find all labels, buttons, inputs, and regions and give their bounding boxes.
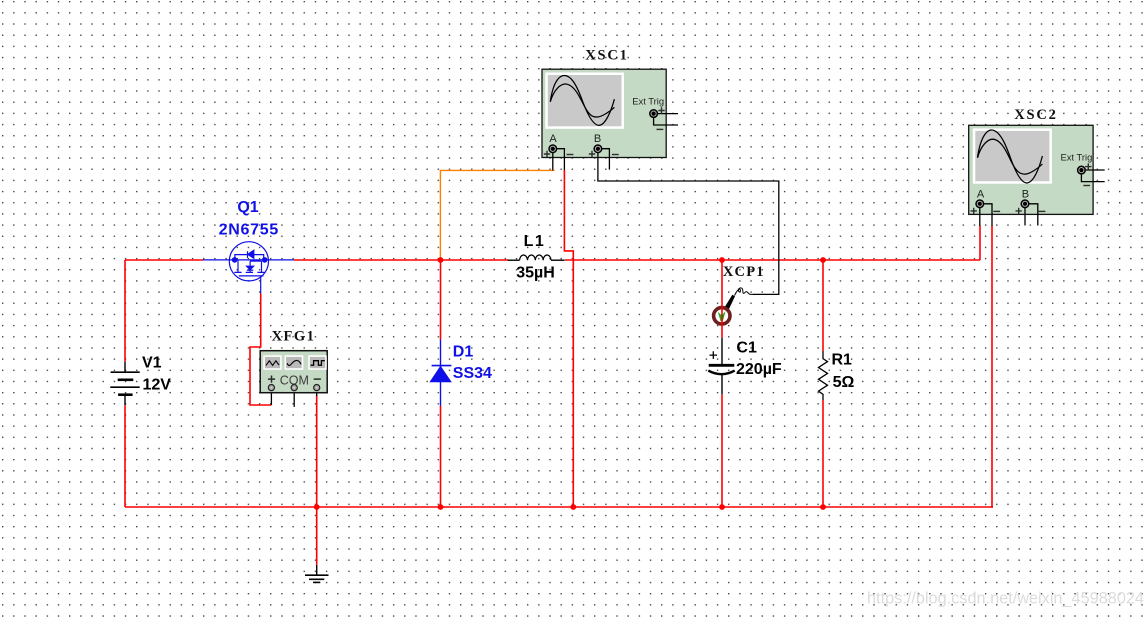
- wire: left branch V1 bottom red: [124, 405, 126, 507]
- svg-text:D1: D1: [453, 344, 474, 361]
- wire: top bus L1 to XSC2: [565, 259, 980, 261]
- wire: XSC2 A+ black lead: [979, 207, 981, 226]
- XSC2 screen: [973, 128, 1052, 183]
- icon triangle-wave: [263, 355, 281, 370]
- wire: orange XSC1 A+ to switch node: [440, 170, 554, 260]
- pin polarity marks XSC2: [971, 163, 1092, 214]
- junction: XCP1 on top bus: [719, 257, 725, 263]
- icon sine-wave: [285, 355, 304, 370]
- svg-text:R1: R1: [832, 352, 853, 369]
- probe clamp: [724, 295, 735, 310]
- svg-text:L1: L1: [524, 233, 546, 250]
- svg-text:V1: V1: [142, 355, 162, 372]
- capacitor C1: [708, 338, 734, 395]
- wire: XSC2 A- black lead: [983, 204, 992, 226]
- svg-text:Q1: Q1: [237, 199, 258, 216]
- icon square-wave: [308, 355, 327, 370]
- XSC2 waveform trace A: [978, 130, 1043, 183]
- XSC1 waveform trace A: [550, 75, 614, 125]
- wire: Q1 source to XFG1 plus: [250, 294, 271, 406]
- wire: XSC1 A+ black lead: [552, 152, 554, 170]
- wire: R1 top red: [822, 260, 824, 351]
- wire: top bus left of Q1: [125, 259, 203, 261]
- wire: C1 bottom red: [721, 394, 723, 507]
- wire: XSC2 A+ vertical: [979, 226, 981, 261]
- oscilloscope U-XSC1: [542, 69, 779, 294]
- wire: XSC1 A- black lead: [556, 149, 564, 170]
- svg-text:XSC2: XSC2: [1014, 107, 1057, 123]
- wire: XSC2 B+ black stub: [1024, 207, 1026, 226]
- inductor L1: [508, 255, 565, 260]
- wire: top bus Q1 to L1: [294, 259, 508, 261]
- wire: R1 bottom red: [822, 400, 824, 507]
- svg-text:220µF: 220µF: [736, 361, 782, 378]
- XSC1 screen: [545, 73, 624, 129]
- probe green arrow: [718, 311, 726, 321]
- wire: XSC2 A- vertical to ground bus: [992, 226, 993, 508]
- wire: XSC2 B- black stub: [1028, 204, 1038, 226]
- svg-text:SS34: SS34: [453, 365, 492, 382]
- pin plus terminal XFG1: [268, 385, 274, 391]
- wire: bottom ground bus: [125, 506, 993, 508]
- pin COM terminal XFG1: [291, 385, 297, 391]
- pin minus terminal XFG1: [314, 385, 320, 391]
- wire: XFG1 minus black stub: [316, 391, 318, 396]
- transistor Q1: [203, 242, 294, 294]
- diode D1: [430, 340, 451, 407]
- svg-text:B: B: [1022, 189, 1029, 201]
- svg-text:Ext Trig: Ext Trig: [1061, 152, 1093, 163]
- junction: R1 on bottom bus: [820, 504, 826, 510]
- svg-text:https://blog.csdn.net/weixin_4: https://blog.csdn.net/weixin_45988024: [867, 590, 1144, 608]
- JUNCTIONS: [314, 257, 826, 510]
- svg-text:XSC1: XSC1: [585, 48, 628, 64]
- wire: XSC1 B+ black to XCP1 coil: [598, 152, 779, 294]
- wire: D1 top red: [440, 260, 442, 340]
- pin B terminal XSC2: [1021, 200, 1029, 208]
- resistor R1: [819, 351, 828, 400]
- probe coil squiggle: [735, 288, 753, 296]
- ground: [305, 565, 329, 583]
- wire red over probe: [721, 306, 723, 326]
- svg-text:35µH: 35µH: [516, 265, 555, 282]
- junction: XSC1 A- on bottom bus: [570, 504, 576, 510]
- pin Ext Trig terminal XSC2: [1078, 166, 1086, 174]
- pin minus mark XFG1: [314, 378, 321, 380]
- XSC1 waveform trace B: [550, 84, 614, 117]
- wire: D1 bottom red: [440, 406, 442, 507]
- wire: XSC1 B- black stub: [601, 149, 609, 170]
- oscilloscope U-XSC2: [969, 125, 1105, 226]
- XSC2 waveform trace B: [978, 139, 1043, 174]
- svg-text:XCP1: XCP1: [723, 264, 765, 280]
- svg-text:A: A: [549, 133, 557, 145]
- svg-text:COM: COM: [280, 373, 309, 387]
- wire: XSC1 A- red down to ground bus: [564, 170, 573, 507]
- svg-text:XFG1: XFG1: [272, 329, 316, 345]
- pin plus mark XFG1: [268, 376, 275, 383]
- battery V1: [110, 362, 139, 406]
- pin Ext Trig terminal XSC1: [650, 110, 658, 118]
- junction: D1 on bottom bus: [438, 504, 444, 510]
- svg-text:12V: 12V: [143, 377, 172, 394]
- pin polarity marks XSC1: [544, 107, 665, 157]
- svg-text:B: B: [594, 133, 601, 145]
- svg-text:A: A: [977, 189, 985, 201]
- wire: XFG1 plus black stub: [270, 391, 272, 405]
- svg-text:5Ω: 5Ω: [833, 374, 855, 391]
- junction: R1 on top bus: [820, 257, 826, 263]
- function generator XFG1: [260, 351, 327, 393]
- junction: orange/D1 on top bus: [438, 257, 444, 263]
- wire: XSC1 ext trig stub 2: [654, 118, 678, 126]
- current probe XCP1: [714, 288, 753, 326]
- wire: XSC2 ext trig stub 2: [1081, 174, 1104, 182]
- pin B terminal XSC1: [594, 145, 602, 153]
- wire: XSC2 ext trig stub 1: [1085, 169, 1105, 171]
- svg-text:2N6755: 2N6755: [219, 222, 279, 239]
- pin A terminal XSC1: [549, 145, 557, 153]
- junction: C1 on bottom bus: [719, 504, 725, 510]
- svg-text:Ext Trig: Ext Trig: [632, 96, 664, 107]
- junction: XFG1/ground on bottom bus: [314, 504, 320, 510]
- probe ring: [714, 308, 730, 324]
- wire: XFG1 minus down to ground symbol: [316, 395, 318, 565]
- wire: XFG1 COM black stub: [293, 391, 295, 407]
- pin A terminal XSC2: [976, 200, 984, 208]
- svg-text:C1: C1: [736, 340, 757, 357]
- wire: left branch V1 top red: [124, 260, 126, 362]
- wire: XSC1 ext trig stub 1: [658, 113, 679, 115]
- wire: XCP1/C1 top red: [721, 260, 723, 338]
